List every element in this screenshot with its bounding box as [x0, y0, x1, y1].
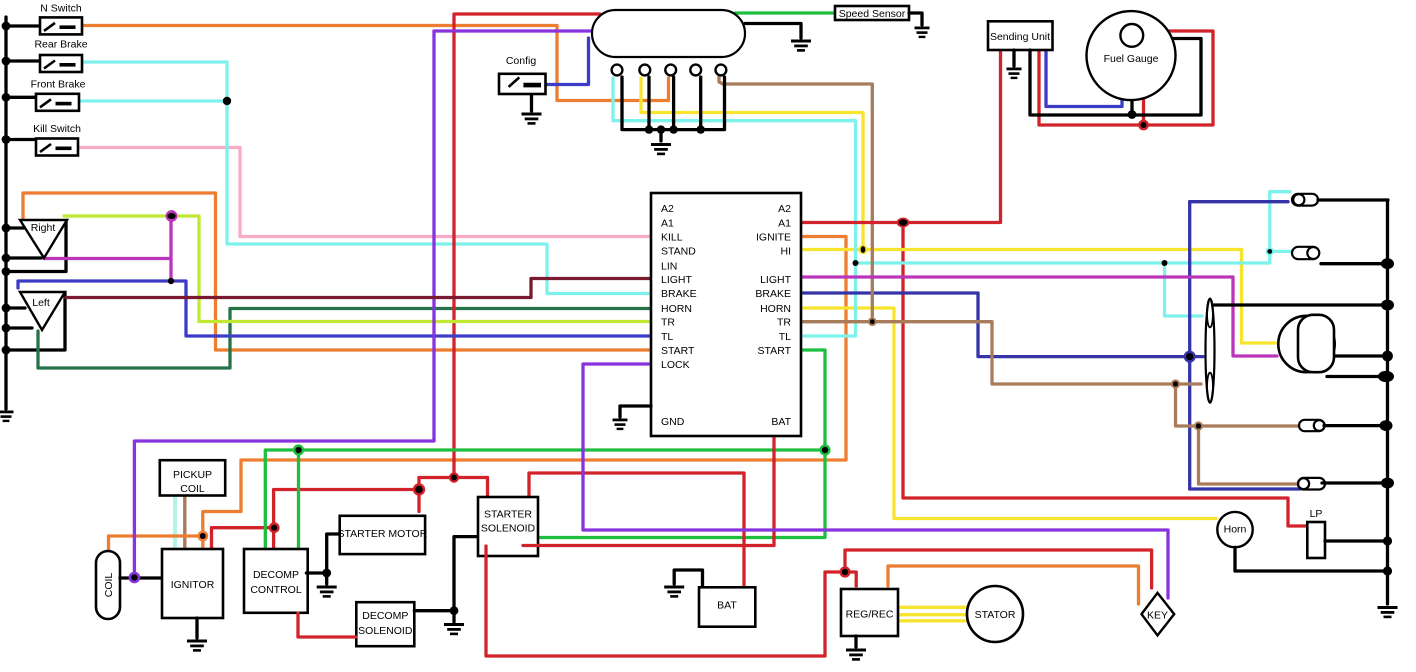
node green start junction 2 [293, 444, 304, 455]
wire black gauge cluster ground lead [745, 24, 801, 39]
ground reg/rec [846, 649, 866, 661]
turn indicator Right [20, 220, 67, 258]
node connector manifold junctions [645, 125, 705, 133]
svg-text:START: START [758, 345, 792, 357]
svg-text:BAT: BAT [771, 416, 791, 428]
svg-text:SOLENOID: SOLENOID [358, 625, 413, 637]
svg-text:LIGHT: LIGHT [661, 274, 693, 286]
ground decomp solenoid [444, 623, 464, 635]
svg-text:LIN: LIN [661, 260, 677, 272]
svg-text:TL: TL [779, 331, 791, 343]
node lime-magenta junction [166, 210, 178, 222]
connector pin 1 [612, 65, 623, 76]
ground right bus [1378, 606, 1398, 618]
wire green speed sensor [735, 11, 835, 14]
svg-text:A1: A1 [778, 217, 791, 229]
node cyan TL junction [853, 260, 859, 266]
switch Rear Brake [34, 39, 87, 73]
wire yellow HORN [801, 308, 1216, 519]
lamp bulb 2 [1292, 247, 1319, 259]
node right bus junctions [1378, 258, 1394, 575]
svg-text:HI: HI [781, 246, 792, 258]
wire maroon Left-turn to LIGHT pin [66, 279, 650, 298]
wire blue config to gauge cluster [545, 38, 589, 85]
wire bulb3 to ground bus [1324, 424, 1386, 427]
wire sending unit ground stem [1012, 50, 1015, 66]
tail lamp lens [1206, 299, 1215, 403]
wire right ground bus [1386, 200, 1389, 604]
svg-text:DECOMP: DECOMP [362, 610, 408, 622]
wire headlight to ground bus upper [1335, 354, 1388, 357]
wire black sending unit to fuel gauge [1030, 39, 1201, 116]
node red decomp junction [269, 522, 280, 533]
stator [967, 586, 1023, 642]
ground battery [664, 586, 684, 598]
svg-text:STATOR: STATOR [975, 609, 1016, 621]
wire red battery to starter solenoid [529, 473, 744, 585]
svg-text:TL: TL [661, 331, 673, 343]
fuel gauge [1087, 11, 1176, 100]
connector pin 5 [716, 65, 727, 76]
svg-text:TR: TR [777, 317, 791, 329]
node red regrec junction [839, 566, 850, 577]
node front brake cyan junction [223, 97, 231, 105]
switch Front Brake [31, 79, 86, 111]
sending unit box [988, 21, 1053, 50]
LP lamp [1307, 508, 1325, 558]
ground gauge cluster [791, 40, 811, 52]
wire black left bus [4, 17, 7, 409]
wire blue fuel gauge to sending unit [1046, 51, 1122, 107]
headlight [1278, 315, 1334, 372]
wire ignitor ground stem [195, 618, 198, 638]
svg-text:LOCK: LOCK [661, 359, 690, 371]
ground speed sensor [915, 27, 930, 39]
ground connector [651, 143, 671, 155]
wire red main ignition feed from connector [212, 14, 601, 548]
svg-text:Sending Unit: Sending Unit [990, 31, 1050, 43]
svg-text:START: START [661, 345, 695, 357]
wire stub Right top [6, 226, 24, 229]
wire Right-turn return black [6, 221, 66, 272]
wire bulb4 to ground bus [1322, 481, 1387, 484]
wire red A1 branch to LP light [903, 223, 1306, 527]
decomp solenoid box [356, 602, 414, 646]
wire red stub control BAT into starter solenoid [523, 544, 540, 547]
svg-text:KEY: KEY [1147, 610, 1168, 622]
battery box [699, 587, 755, 626]
svg-text:Kill Switch: Kill Switch [33, 123, 81, 135]
wire magenta LIGHT to headlight [801, 277, 1277, 356]
wire black coil to ignitor [120, 576, 162, 579]
svg-text:Speed Sensor: Speed Sensor [839, 8, 906, 20]
wire dark-green Left-turn to HORN pin [38, 309, 650, 369]
horn [1217, 512, 1252, 547]
svg-text:IGNITOR: IGNITOR [171, 579, 215, 591]
wire orange REG/REC to KEY [888, 566, 1139, 604]
wire green START branch to decomp control [265, 450, 825, 547]
wire bulb1 to ground bus [1318, 198, 1388, 201]
wire brown connector pin5 to TR [719, 77, 872, 322]
decomp control box [244, 549, 308, 613]
wire blue Left-turn to TL pin [18, 281, 650, 336]
key switch [1142, 593, 1175, 636]
svg-text:KILL: KILL [661, 231, 683, 243]
svg-text:HORN: HORN [760, 303, 791, 315]
svg-text:A1: A1 [661, 217, 674, 229]
wire red decomp control to decomp solenoid [298, 613, 356, 637]
wire pink Kill-switch to KILL pin [79, 148, 650, 237]
node solenoid ground junction [450, 606, 459, 615]
node brown lamp junction 2 [1194, 421, 1203, 430]
svg-text:PICKUP: PICKUP [173, 469, 212, 481]
wire headlight to ground bus lower [1327, 375, 1388, 378]
node purple coil junction [129, 572, 141, 584]
wire config ground stem [530, 96, 533, 112]
wire navy BRAKE to brake lamps [801, 202, 1300, 489]
node yellow HI junction [858, 245, 868, 255]
ignitor box [162, 549, 223, 618]
node black fuel gauge junction [1128, 110, 1137, 119]
svg-text:Right: Right [31, 222, 56, 234]
svg-text:LP: LP [1310, 508, 1323, 520]
config switch [499, 55, 546, 94]
svg-text:Left: Left [32, 297, 50, 309]
wire yellow HI to headlight [641, 78, 1276, 343]
svg-text:COIL: COIL [103, 573, 115, 598]
node red starter junction [413, 483, 425, 495]
wire red starter solenoid to REG/REC and KEY [486, 546, 1152, 656]
node cyan tail junction [1162, 260, 1168, 266]
wire yellow stator phases [898, 607, 968, 621]
wire orange IGNITE to IGNITOR and COIL [109, 237, 847, 552]
connector pin 4 [690, 65, 701, 76]
wire purple gauge cluster to coil [134, 31, 592, 577]
svg-text:STAND: STAND [661, 246, 696, 258]
node orange ignitor junction [197, 531, 208, 542]
svg-text:CONTROL: CONTROL [250, 584, 301, 596]
svg-text:DECOMP: DECOMP [253, 569, 299, 581]
wire red stub into starter solenoid bottom [484, 546, 487, 557]
control box U1 [651, 193, 801, 436]
svg-text:TR: TR [661, 317, 675, 329]
svg-text:COIL: COIL [180, 483, 205, 495]
svg-text:REG/REC: REG/REC [846, 609, 894, 621]
wire stub Kill Switch [6, 138, 36, 141]
wire decomp control ground + starter motor return [306, 534, 339, 584]
wire stub Rear Brake [6, 59, 40, 62]
svg-text:GND: GND [661, 416, 685, 428]
switch Kill Switch [33, 123, 81, 156]
wire green START to starter solenoid [539, 350, 825, 538]
svg-text:Rear Brake: Rear Brake [34, 39, 87, 51]
svg-text:Config: Config [506, 55, 537, 67]
reg/rec box [841, 589, 898, 636]
wire cyan TL to tail lamps [613, 78, 1292, 336]
svg-text:Horn: Horn [1224, 524, 1247, 536]
pickup coil box [160, 460, 225, 495]
wire Left-turn return black [6, 293, 65, 350]
wire purple LOCK to KEY [583, 364, 1168, 598]
svg-text:BRAKE: BRAKE [755, 288, 791, 300]
wire bulb2 to ground bus [1321, 262, 1388, 265]
ground control box [613, 419, 628, 431]
svg-text:A2: A2 [778, 203, 791, 215]
ground decomp control [317, 586, 337, 598]
switch N Switch [40, 3, 82, 35]
ground sending unit [1007, 68, 1022, 80]
turn indicator Left [20, 292, 65, 330]
lamp bulb 1 [1292, 194, 1318, 206]
svg-text:LIGHT: LIGHT [760, 274, 792, 286]
svg-text:SOLENOID: SOLENOID [481, 523, 536, 535]
lamp bulb 4 [1298, 478, 1325, 490]
svg-text:STARTER MOTOR: STARTER MOTOR [337, 528, 427, 540]
node decomp ground junction [322, 569, 331, 578]
svg-text:A2: A2 [661, 203, 674, 215]
wire control box GND lead [620, 406, 651, 417]
node red fuel gauge junction [1138, 120, 1149, 131]
wire brown TR to turn lamps [801, 322, 1301, 484]
wire red control box BAT to starter solenoid [523, 436, 774, 546]
wire red A1 to sending unit [801, 51, 1001, 223]
wire brown pickup coil [183, 496, 186, 549]
wire connector manifold [622, 77, 725, 141]
svg-text:BAT: BAT [717, 600, 737, 612]
connector pin 2 [639, 65, 650, 76]
svg-text:Front Brake: Front Brake [31, 79, 86, 91]
svg-text:BRAKE: BRAKE [661, 288, 697, 300]
wire lime Right-turn to TR pin [64, 216, 650, 322]
node navy brake junction [1184, 351, 1196, 363]
wire magenta Right-turn link [44, 216, 171, 281]
wire pale-cyan pickup coil [173, 496, 177, 549]
wire stub Right apex [6, 256, 41, 259]
svg-text:Fuel Gauge: Fuel Gauge [1104, 53, 1159, 65]
wire stub Left apex [6, 326, 32, 329]
wire red sending unit to fuel gauge [1039, 31, 1213, 125]
node cyan lamp junction [1266, 247, 1274, 255]
svg-text:IGNITE: IGNITE [756, 231, 791, 243]
node brown TR junction [868, 317, 877, 326]
node green start junction 1 [819, 444, 830, 455]
node blue-magenta junction [168, 278, 174, 284]
wire cyan brake switches to BRAKE pin [79, 62, 650, 294]
connector pin 3 [665, 65, 676, 76]
node brown lamp junction 1 [1171, 379, 1180, 388]
wire orange N-Switch to connector pin 3 [82, 26, 669, 101]
ground ignitor [187, 640, 207, 652]
starter motor box [337, 516, 427, 554]
node red A1 junction [897, 218, 910, 228]
wire horn to ground bus [1235, 547, 1387, 571]
node left bus junctions [2, 22, 11, 355]
ground config [522, 113, 542, 125]
wire stub N Switch [6, 24, 40, 27]
ground left bus [0, 411, 14, 423]
svg-text:HORN: HORN [661, 303, 692, 315]
wire stub Left top [6, 306, 25, 309]
svg-text:N Switch: N Switch [40, 3, 82, 15]
wire reg/rec ground stem [854, 636, 857, 647]
gauge cluster pill [592, 10, 745, 57]
wire LP to ground bus [1325, 539, 1387, 542]
speed sensor box [835, 6, 909, 20]
svg-text:STARTER: STARTER [484, 509, 532, 521]
wire orange Right-turn to START pin [23, 193, 650, 350]
wire stub Front Brake [6, 96, 36, 99]
node red feed junction [449, 472, 459, 482]
wire tail lamp to ground bus [1214, 303, 1388, 306]
wire battery ground lead [674, 570, 702, 587]
wire speed sensor ground lead [909, 13, 922, 25]
wire black decomp solenoid to ground junction [414, 537, 478, 622]
coil [96, 551, 120, 619]
lamp bulb 3 [1299, 420, 1325, 431]
starter solenoid box [478, 497, 538, 556]
